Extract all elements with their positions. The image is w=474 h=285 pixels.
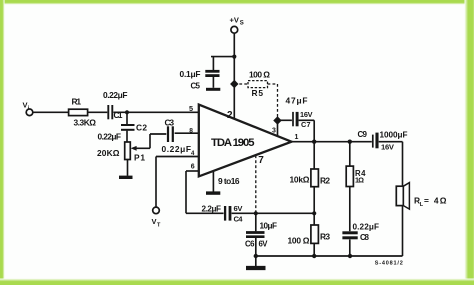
svg-text:0.22μF: 0.22μF [103, 90, 128, 100]
svg-text:20KΩ: 20KΩ [97, 148, 120, 158]
svg-text:TDA 1905: TDA 1905 [211, 137, 255, 149]
svg-text:1: 1 [295, 134, 299, 141]
svg-text:R2: R2 [320, 175, 330, 185]
svg-text:2: 2 [227, 110, 233, 121]
svg-text:P1: P1 [134, 152, 145, 162]
svg-text:10kΩ: 10kΩ [290, 174, 310, 184]
svg-text:V: V [152, 217, 157, 226]
svg-text:6V: 6V [234, 204, 244, 213]
svg-text:C9: C9 [358, 130, 368, 139]
svg-text:0.22μF: 0.22μF [98, 132, 122, 142]
svg-text:C5: C5 [191, 81, 201, 90]
svg-text:S: S [240, 21, 244, 27]
svg-text:C3: C3 [165, 117, 175, 127]
svg-text:100 Ω: 100 Ω [288, 235, 310, 245]
svg-text:C1: C1 [114, 111, 124, 120]
svg-text:16V: 16V [381, 142, 395, 151]
svg-text:+V: +V [230, 16, 239, 25]
svg-text:0.22μF: 0.22μF [162, 144, 192, 154]
svg-text:5: 5 [189, 104, 193, 113]
svg-text:1000μF: 1000μF [380, 130, 408, 139]
svg-text:9 to16: 9 to16 [218, 176, 240, 186]
svg-text:7: 7 [258, 155, 264, 166]
svg-text:R1: R1 [72, 97, 82, 107]
svg-text:6: 6 [191, 164, 195, 171]
svg-text:47μF: 47μF [286, 95, 308, 105]
svg-text:= 4Ω: = 4Ω [424, 196, 447, 206]
svg-text:3: 3 [272, 128, 276, 135]
svg-text:S-4081/2: S-4081/2 [375, 261, 403, 267]
svg-text:2.2μF: 2.2μF [202, 204, 222, 213]
svg-text:1Ω: 1Ω [355, 175, 364, 184]
svg-text:100 Ω: 100 Ω [249, 69, 270, 79]
svg-text:C7: C7 [301, 120, 311, 129]
svg-text:C4: C4 [234, 214, 244, 223]
svg-text:C6: C6 [245, 239, 255, 248]
svg-text:8: 8 [189, 128, 193, 135]
svg-text:R3: R3 [320, 231, 330, 241]
svg-text:10μF: 10μF [260, 221, 278, 230]
svg-text:6V: 6V [259, 239, 269, 248]
svg-text:0.1μF: 0.1μF [180, 69, 201, 79]
svg-text:3.3KΩ: 3.3KΩ [74, 118, 97, 128]
svg-text:C2: C2 [136, 122, 147, 132]
svg-text:R5: R5 [252, 88, 264, 98]
svg-text:C8: C8 [360, 233, 370, 242]
svg-text:16V: 16V [300, 110, 313, 119]
svg-text:0.22μF: 0.22μF [353, 222, 380, 231]
